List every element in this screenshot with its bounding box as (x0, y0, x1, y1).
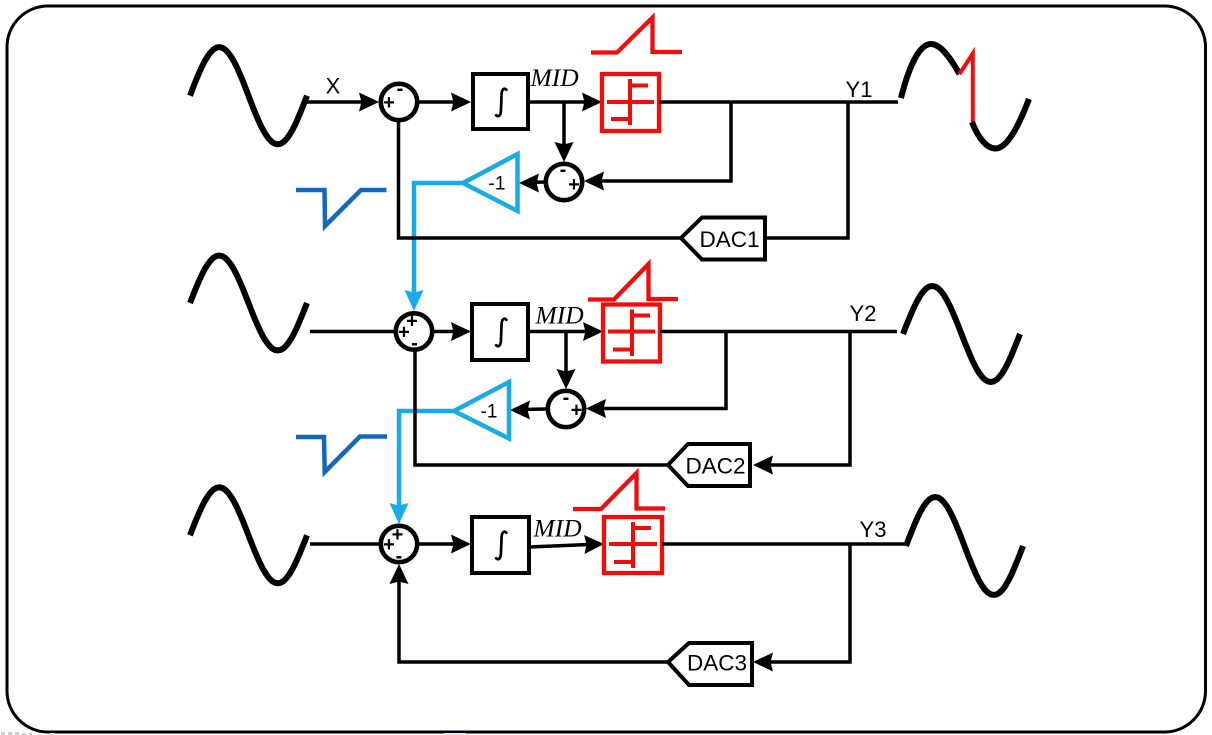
DAC1 (681, 218, 765, 260)
waveform: output Y1 with glitch (901, 44, 960, 98)
svg-text:-1: -1 (481, 402, 498, 423)
wire: U1 to quantizer Q1 (528, 100, 593, 104)
waveform: error E1 (blue) (296, 190, 387, 226)
decor dots bottom-left (1, 732, 466, 735)
summing junction S3 (381, 526, 417, 562)
waveform: input sine row3 (190, 487, 307, 583)
wire: MID2 tap down to summer S2b (564, 332, 568, 381)
wire: S3 to integrator U3 (418, 542, 462, 546)
svg-text:DAC2: DAC2 (685, 454, 745, 479)
wire: X to summer S1 (307, 100, 369, 104)
DAC2 (668, 444, 750, 486)
svg-text:-1: -1 (489, 174, 506, 195)
gain A1 (-1) (463, 154, 518, 211)
quantizer Q3 (604, 517, 662, 573)
waveform: ramp above Q3 (573, 473, 665, 509)
wire: S1b to gain A1 (528, 180, 545, 184)
svg-text:+: + (571, 400, 583, 422)
summing junction S2b (548, 391, 584, 427)
wire: U3 to quantizer Q3 (529, 544, 595, 547)
wire: S2b to gain A2 (519, 407, 547, 411)
waveform: input sine row2 (190, 256, 307, 351)
integrator U2 (472, 304, 528, 360)
DAC3 (668, 643, 752, 685)
wire: input to summer S2 (310, 330, 395, 334)
svg-text:X: X (326, 74, 341, 99)
svg-text:-: - (397, 78, 404, 100)
summing junction S2 (396, 313, 432, 349)
wire: MID tap down to summer S1b (562, 102, 566, 153)
waveform: output sine Y2 (903, 286, 1020, 382)
wire: A2 to summer S3 (cyan) (399, 411, 454, 515)
waveform: input sine X (190, 47, 307, 144)
svg-text:MID: MID (533, 514, 583, 543)
wire: Y3 to DAC3 (762, 544, 850, 662)
svg-text:+: + (398, 322, 410, 344)
svg-text:+: + (568, 174, 580, 196)
waveform: output sine Y3 (906, 497, 1023, 595)
wire: S2 to integrator U2 (433, 330, 462, 334)
wire: Y2 line tap down-left to summer S2b (595, 332, 726, 409)
wire: input to summer S3 (310, 542, 380, 546)
wire: A1 to summer S2 (cyan) (414, 183, 463, 302)
wire: Y1 tap down-left to summer S1b (593, 102, 731, 181)
wire: Q2 output to Y2 (660, 330, 897, 334)
svg-text:-: - (563, 387, 570, 409)
quantizer Q2 (603, 305, 660, 362)
svg-text:+: + (383, 92, 395, 114)
wire: S1 to integrator U1 (418, 100, 462, 104)
svg-text:MID: MID (535, 301, 585, 330)
waveform: ramp above Q1 (591, 18, 682, 53)
svg-text:Y3: Y3 (860, 517, 887, 542)
wire: U2 to quantizer Q2 (528, 330, 594, 334)
wire: DAC1 to S1 (399, 121, 682, 239)
integrator U1 (473, 74, 528, 129)
summing junction S1 (381, 84, 417, 120)
wire: Y2 to DAC2 (762, 332, 850, 466)
waveform: ramp above Q2 (588, 264, 678, 300)
gain A2 (-1) (454, 382, 509, 439)
svg-text:Y2: Y2 (850, 301, 877, 326)
wire: Q3 output to Y3 (662, 542, 907, 546)
wire: Q1 output to Y1 (659, 100, 898, 104)
svg-text:DAC3: DAC3 (687, 651, 747, 676)
svg-text:DAC1: DAC1 (699, 227, 759, 252)
wire: DAC2 to S2 (415, 350, 668, 465)
svg-text:Y1: Y1 (846, 77, 873, 102)
summing junction S1b (546, 164, 582, 200)
svg-text:+: + (383, 534, 395, 556)
wire: Y1 to DAC1 (765, 102, 848, 238)
svg-text:MID: MID (530, 63, 580, 92)
svg-text:-: - (560, 159, 567, 181)
waveform: error E2 (blue) (296, 437, 387, 473)
integrator U3 (472, 517, 529, 573)
quantizer Q1 (602, 74, 659, 131)
wire: DAC3 to S3 (399, 573, 668, 662)
